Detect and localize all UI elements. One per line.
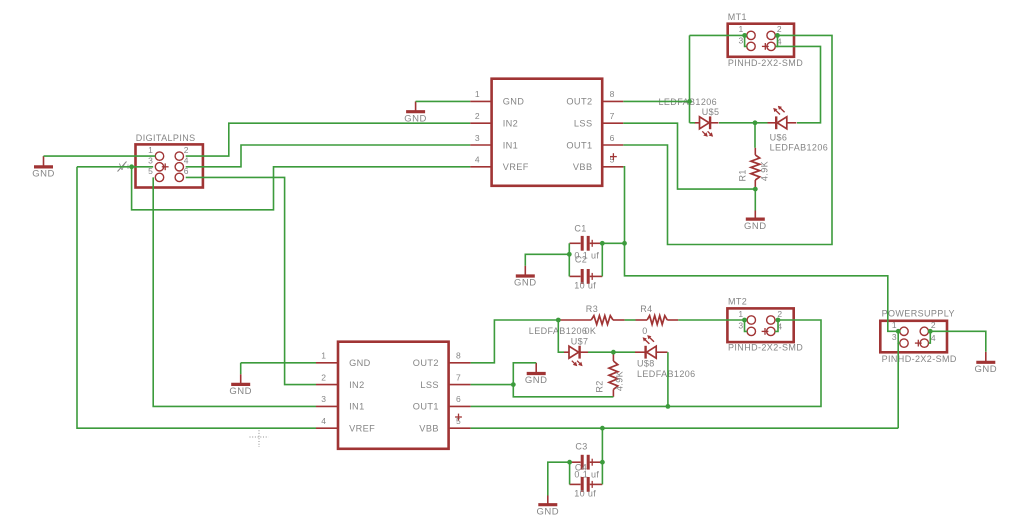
capacitor C2 10uf bbox=[570, 275, 581, 277]
svg-text:1: 1 bbox=[892, 320, 897, 330]
resistor R2 4.9K bbox=[612, 352, 614, 361]
svg-text:GND: GND bbox=[349, 358, 371, 368]
wire DIGITALPINS pin4 to IN1 upper IC bbox=[186, 145, 471, 167]
svg-text:R3: R3 bbox=[586, 304, 598, 314]
pin 1 GND lower IC bbox=[316, 362, 338, 364]
wire C3 tap from VBB rail bbox=[601, 428, 603, 462]
wire C3/C4 right rail bbox=[601, 462, 603, 484]
wire DIGITALPINS pin5 to IN1 lower IC bbox=[153, 177, 316, 406]
pin 1 DIGITALPINS bbox=[155, 152, 163, 160]
LED U$8 LEDFAB1206 bbox=[635, 351, 646, 353]
plus mark pin4 MT1 bbox=[762, 45, 769, 47]
wire V+ left branch down to VREF of lower IC bbox=[77, 167, 316, 428]
pin 4 MT1 bbox=[767, 42, 775, 50]
pin 7 LSS upper IC bbox=[602, 122, 623, 124]
pin 3 IN1 upper IC bbox=[470, 144, 491, 146]
connector POWERSUPPLY PINHD-2X2-SMD bbox=[880, 321, 947, 353]
wire V+ rail into DIGITALPINS pin3 bbox=[77, 166, 153, 168]
svg-text:U$6: U$6 bbox=[770, 133, 788, 143]
svg-text:6: 6 bbox=[456, 394, 461, 404]
svg-text:4: 4 bbox=[475, 155, 480, 165]
node LED row junction bbox=[753, 120, 758, 125]
svg-text:PINHD-2X2-SMD: PINHD-2X2-SMD bbox=[728, 58, 803, 68]
svg-text:IN2: IN2 bbox=[503, 119, 519, 129]
pin 1 MT1 bbox=[747, 31, 755, 39]
wire C1 node link bbox=[602, 242, 624, 244]
wire VBB lower rail bbox=[471, 427, 899, 429]
pin 7 LSS lower IC bbox=[449, 384, 471, 386]
wire POWERSUPPLY pin2 to GND bbox=[930, 331, 986, 352]
pin 4 VREF lower IC bbox=[316, 427, 338, 429]
svg-text:4: 4 bbox=[184, 156, 189, 166]
pin 3 MT1 bbox=[747, 42, 755, 50]
svg-text:VREF: VREF bbox=[503, 162, 529, 172]
wire LSS lower to node bbox=[471, 384, 514, 386]
plus mark pin3 DIGITALPINS bbox=[162, 166, 169, 168]
plus mark VBB pin upper bbox=[610, 156, 617, 158]
wire DIGITALPINS pin6 to IN2 lower IC bbox=[186, 177, 316, 384]
wire R3 to R4 bbox=[625, 319, 636, 321]
node U$8/OUT1 junction bbox=[666, 404, 671, 409]
svg-text:GND: GND bbox=[974, 364, 997, 375]
wire OUT2 upper to MT1 pin1 / LED U$5 bbox=[623, 100, 689, 102]
svg-text:6: 6 bbox=[610, 133, 615, 143]
ground top-left bbox=[43, 156, 45, 167]
svg-text:2: 2 bbox=[931, 320, 936, 330]
svg-text:10 uf: 10 uf bbox=[574, 281, 596, 291]
resistor R1 4.9K bbox=[754, 148, 756, 155]
svg-text:R1: R1 bbox=[738, 169, 748, 181]
node MT1 pin2 bbox=[775, 33, 780, 38]
wire node up to GND symbol bbox=[513, 363, 536, 385]
svg-text:10 uf: 10 uf bbox=[574, 489, 596, 499]
ground upper IC pin1 bbox=[415, 101, 417, 111]
svg-text:VREF: VREF bbox=[349, 424, 375, 434]
svg-text:MT2: MT2 bbox=[728, 297, 747, 307]
node C3 left junction bbox=[567, 460, 572, 465]
ground C1/C2 bbox=[524, 266, 526, 276]
svg-text:IN2: IN2 bbox=[349, 380, 365, 390]
LED U$5 LEDFAB1206 bbox=[694, 122, 700, 124]
svg-text:OUT2: OUT2 bbox=[413, 358, 439, 368]
pin 3 IN1 lower IC bbox=[316, 405, 338, 407]
pin 5 VBB lower IC bbox=[449, 427, 471, 429]
node R1 bottom junction bbox=[753, 187, 758, 192]
svg-text:C1: C1 bbox=[574, 224, 586, 234]
pin 6 OUT1 upper IC bbox=[602, 144, 623, 146]
svg-text:OUT2: OUT2 bbox=[566, 97, 592, 107]
node U$7/R2 junction bbox=[611, 350, 616, 355]
node VBB-lower junction bbox=[600, 426, 605, 431]
plus mark pin4 POWERSUPPLY bbox=[915, 342, 922, 344]
pin 3 POWERSUPPLY bbox=[900, 339, 908, 347]
plus mark pin4 MT2 bbox=[762, 330, 769, 332]
svg-text:8: 8 bbox=[456, 351, 461, 361]
pin 5 VBB upper IC bbox=[602, 166, 623, 168]
IC driver upper bbox=[492, 79, 603, 186]
pin 8 OUT2 lower IC bbox=[449, 362, 471, 364]
wire C3/C4 gnd tap bbox=[548, 462, 570, 495]
node C3 right junction bbox=[600, 460, 605, 465]
svg-text:1: 1 bbox=[321, 351, 326, 361]
wire MT2 strap pin2-pin4 bbox=[775, 320, 778, 331]
wire VBB upper to C1 node to POWERSUPPLY pin1 bbox=[623, 167, 898, 331]
pin 6 OUT1 lower IC bbox=[449, 405, 471, 407]
svg-text:2: 2 bbox=[321, 372, 326, 382]
wire MT2 strap pin1-pin3 bbox=[745, 320, 748, 331]
svg-text:6: 6 bbox=[184, 166, 189, 176]
svg-text:3: 3 bbox=[148, 156, 153, 166]
pin 2 DIGITALPINS bbox=[175, 152, 183, 160]
svg-text:OUT1: OUT1 bbox=[413, 402, 439, 412]
LED U$7 LEDFAB1206 bbox=[564, 351, 570, 353]
wire U$7 to U$8 through node bbox=[588, 351, 635, 353]
svg-text:3: 3 bbox=[321, 394, 326, 404]
pin 2 MT1 bbox=[767, 31, 775, 39]
pin 1 MT2 bbox=[747, 316, 755, 324]
svg-text:C3: C3 bbox=[575, 442, 587, 452]
pin 6 DIGITALPINS bbox=[175, 173, 183, 181]
svg-text:U$5: U$5 bbox=[702, 107, 720, 117]
svg-text:GND: GND bbox=[744, 221, 767, 232]
svg-text:2: 2 bbox=[475, 111, 480, 121]
pin 5 DIGITALPINS bbox=[155, 173, 163, 181]
svg-text:0K: 0K bbox=[585, 326, 597, 336]
node C1/C2 gnd junction bbox=[567, 252, 572, 257]
svg-text:IN1: IN1 bbox=[349, 402, 365, 412]
svg-text:LEDFAB1206: LEDFAB1206 bbox=[770, 143, 829, 153]
ground C3/C4 bbox=[547, 496, 549, 505]
pin 3 MT2 bbox=[747, 327, 755, 335]
svg-text:3: 3 bbox=[892, 332, 897, 342]
svg-text:1: 1 bbox=[475, 89, 480, 99]
svg-text:GND: GND bbox=[229, 386, 252, 397]
svg-text:GND: GND bbox=[32, 169, 55, 180]
svg-text:2: 2 bbox=[777, 24, 782, 34]
svg-text:PINHD-2X2-SMD: PINHD-2X2-SMD bbox=[882, 354, 957, 364]
svg-text:4: 4 bbox=[931, 333, 936, 343]
svg-text:GND: GND bbox=[503, 97, 525, 107]
svg-text:LEDFAB1206: LEDFAB1206 bbox=[637, 369, 696, 379]
wire MT2 pin2 to OUT1 lower bbox=[471, 320, 821, 406]
capacitor C1 0.1uf bbox=[570, 242, 581, 244]
svg-text:GND: GND bbox=[514, 278, 537, 289]
svg-text:1: 1 bbox=[738, 24, 743, 34]
node V+ junction bbox=[129, 164, 134, 169]
svg-text:5: 5 bbox=[148, 166, 153, 176]
wire C1/C2 left rail bbox=[568, 243, 570, 276]
resistor R4 0 bbox=[636, 319, 648, 321]
wire R4 to MT2 pin1 bbox=[678, 319, 744, 321]
node OUT2-upper junction bbox=[687, 99, 692, 104]
svg-text:GND: GND bbox=[525, 375, 548, 386]
svg-text:R2: R2 bbox=[595, 380, 605, 392]
wire GND to DIGITALPINS pin1 bbox=[44, 155, 156, 157]
wire U$8 right down to OUT1 lower bbox=[667, 352, 669, 406]
wire R2 bottom to LSS lower node bbox=[513, 385, 613, 397]
ground lower IC pin1 bbox=[240, 374, 242, 384]
svg-text:2: 2 bbox=[777, 309, 782, 319]
ground POWERSUPPLY bbox=[985, 352, 987, 363]
wire lower IC pin1 to GND bbox=[241, 362, 316, 364]
svg-text:LSS: LSS bbox=[574, 119, 593, 129]
svg-text:1: 1 bbox=[148, 145, 153, 155]
node MT2 pin1 bbox=[742, 318, 747, 323]
connector DIGITALPINS bbox=[136, 144, 203, 187]
wire C3/C4 left rail bbox=[569, 462, 571, 484]
svg-text:C2: C2 bbox=[575, 255, 587, 265]
pin 2 MT2 bbox=[767, 316, 775, 324]
wire MT1 strap pin1-pin3 bbox=[745, 35, 747, 46]
pin 4 POWERSUPPLY bbox=[920, 339, 928, 347]
svg-text:VBB: VBB bbox=[419, 424, 439, 434]
svg-text:VBB: VBB bbox=[573, 162, 593, 172]
wire C1/C2 right rail bbox=[601, 243, 603, 276]
svg-text:7: 7 bbox=[456, 372, 461, 382]
wire ground lower IC pin1 lead bbox=[240, 363, 242, 374]
svg-text:POWERSUPPLY: POWERSUPPLY bbox=[882, 308, 955, 318]
pin 2 IN2 upper IC bbox=[470, 122, 491, 124]
pin 4 VREF upper IC bbox=[470, 166, 491, 168]
wire OUT2 lower to R3 bbox=[471, 320, 559, 363]
svg-text:4.9K: 4.9K bbox=[615, 371, 625, 391]
node POWERSUPPLY pin1 bbox=[896, 329, 901, 334]
ground LSS lower bbox=[535, 363, 537, 374]
svg-text:R4: R4 bbox=[640, 304, 652, 314]
wire V+ branch to VREF of upper IC bbox=[132, 167, 471, 210]
plus mark VBB pin lower bbox=[455, 416, 462, 418]
svg-text:U$7: U$7 bbox=[571, 337, 589, 347]
svg-text:3: 3 bbox=[475, 133, 480, 143]
svg-text:7: 7 bbox=[610, 111, 615, 121]
svg-text:IN1: IN1 bbox=[503, 140, 519, 150]
ground R1 bottom bbox=[754, 211, 756, 220]
node R3 left junction bbox=[556, 318, 561, 323]
svg-text:4: 4 bbox=[321, 416, 326, 426]
svg-text:PINHD-2X2-SMD: PINHD-2X2-SMD bbox=[728, 342, 803, 352]
pin 4 DIGITALPINS bbox=[175, 163, 183, 171]
wire upper IC pin1 GND bbox=[416, 100, 471, 102]
wire node down to R1 bbox=[754, 123, 756, 148]
svg-text:3: 3 bbox=[738, 320, 743, 330]
node VBB-upper junction bbox=[622, 241, 627, 246]
svg-text:C4: C4 bbox=[575, 463, 587, 473]
wire POWERSUPPLY strap pin2-pin4 bbox=[929, 331, 931, 343]
wire MT1 strap pin2-pin4 bbox=[775, 35, 777, 46]
pin 2 IN2 lower IC bbox=[316, 384, 338, 386]
node MT1 pin1 bbox=[742, 33, 747, 38]
svg-text:8: 8 bbox=[610, 89, 615, 99]
pin 1 POWERSUPPLY bbox=[900, 327, 908, 335]
node MT2 pin2 bbox=[776, 318, 781, 323]
wire LED row U$5 to U$6 through node bbox=[719, 122, 768, 124]
pin 2 POWERSUPPLY bbox=[920, 327, 928, 335]
pin 1 GND upper IC bbox=[470, 100, 491, 102]
svg-text:1: 1 bbox=[738, 309, 743, 319]
svg-text:MT1: MT1 bbox=[728, 12, 747, 22]
origin cross marker bbox=[258, 428, 260, 448]
wire LSS upper to R1 bottom bbox=[623, 123, 755, 189]
svg-text:U$8: U$8 bbox=[637, 359, 655, 369]
wire R3 node down to LED U$7 bbox=[558, 320, 564, 352]
wire MT1 pin2 to OUT1 upper IC bbox=[623, 35, 832, 244]
LED U$6 LEDFAB1206 bbox=[768, 122, 777, 124]
wire ground R1 bottom lead bbox=[754, 189, 756, 210]
svg-text:0: 0 bbox=[642, 326, 647, 336]
capacitor C4 10uf bbox=[570, 483, 581, 485]
pin 3 DIGITALPINS bbox=[155, 163, 163, 171]
capacitor C3 0.1uf bbox=[570, 461, 581, 463]
pin 4 MT2 bbox=[767, 327, 775, 335]
svg-text:GND: GND bbox=[536, 506, 559, 517]
pin 8 OUT2 upper IC bbox=[602, 100, 623, 102]
connector MT2 PINHD-2X2-SMD bbox=[727, 308, 793, 342]
IC driver lower bbox=[338, 342, 449, 449]
connector MT1 PINHD-2X2-SMD bbox=[728, 24, 794, 57]
wire POWERSUPPLY pin3 down to VBB rail bbox=[897, 343, 899, 428]
svg-text:LSS: LSS bbox=[420, 380, 439, 390]
svg-text:4.9K: 4.9K bbox=[759, 161, 769, 181]
wire C1/C2 gnd tap bbox=[525, 254, 569, 265]
wire U$6 right to MT1 pin4 bbox=[776, 46, 820, 122]
wire POWERSUPPLY strap pin1-pin3 bbox=[898, 331, 900, 343]
resistor R3 0K bbox=[558, 319, 591, 321]
wire DIGITALPINS pin2 to IN2 upper IC bbox=[186, 123, 471, 156]
svg-text:DIGITALPINS: DIGITALPINS bbox=[136, 133, 196, 143]
node LSS-lower junction bbox=[511, 382, 516, 387]
svg-text:OUT1: OUT1 bbox=[566, 140, 592, 150]
node POWERSUPPLY pin2 bbox=[928, 329, 933, 334]
node C1 right junction bbox=[600, 241, 605, 246]
svg-text:2: 2 bbox=[184, 145, 189, 155]
